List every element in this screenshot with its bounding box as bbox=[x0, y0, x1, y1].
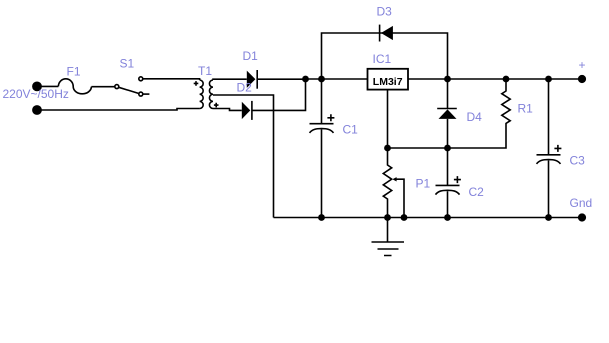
fuse F1 bbox=[58, 79, 91, 94]
junction node C3 bottom bbox=[545, 214, 552, 221]
svg-text:T1: T1 bbox=[198, 64, 212, 78]
bottom ground rail bbox=[274, 217, 583, 219]
diode D3 bbox=[381, 26, 393, 40]
potentiometer P1 wiper arrow bbox=[392, 177, 396, 181]
svg-text:IC1: IC1 bbox=[373, 52, 392, 66]
switch S1 upper throw contact bbox=[139, 77, 143, 81]
junction node adj D4 bbox=[444, 145, 451, 152]
svg-text:C3: C3 bbox=[570, 153, 586, 167]
diode D4 bbox=[447, 79, 449, 109]
junction node adj left bbox=[384, 145, 391, 152]
junction node IC1 out bbox=[444, 76, 451, 83]
svg-text:C2: C2 bbox=[469, 185, 485, 199]
input terminal bottom bbox=[32, 105, 42, 115]
capacitor C1 bbox=[321, 79, 323, 124]
op box IC1 LM317 regulator bbox=[368, 69, 409, 90]
transformer T1 primary winding bbox=[200, 80, 204, 109]
resistor R1 bbox=[388, 79, 511, 148]
wire fuse to switch bbox=[91, 86, 114, 88]
wire secondary center tap bbox=[213, 95, 274, 218]
diode D1 bbox=[247, 71, 256, 88]
capacitor C3 bbox=[548, 79, 550, 155]
wire D2 up to rail bbox=[252, 79, 306, 110]
output terminal + bbox=[578, 75, 586, 83]
input terminal top bbox=[32, 82, 42, 92]
svg-text:C1: C1 bbox=[343, 123, 359, 137]
junction node C1 bottom bbox=[318, 214, 325, 221]
svg-text:Gnd: Gnd bbox=[570, 196, 593, 210]
svg-text:F1: F1 bbox=[67, 65, 81, 79]
junction node C2 bottom bbox=[444, 214, 451, 221]
wire switch to transformer primary bbox=[143, 79, 200, 80]
wire D3 bypass loop bbox=[322, 33, 448, 79]
svg-text:P1: P1 bbox=[416, 176, 431, 190]
switch S1 lever bbox=[119, 87, 139, 93]
junction node at D2 join bbox=[302, 76, 309, 83]
transformer T1 secondary polarity + bbox=[214, 103, 219, 108]
wire IC1 output to rail bbox=[408, 78, 582, 80]
wire transformer primary bottom to input bottom bbox=[37, 109, 200, 111]
junction node R1 top bbox=[503, 76, 510, 83]
junction node wiper bottom bbox=[401, 214, 408, 221]
svg-text:D4: D4 bbox=[467, 110, 483, 124]
switch S1 lower stub bbox=[143, 93, 150, 95]
svg-text:D2: D2 bbox=[237, 81, 253, 95]
switch S1 pole contact bbox=[115, 85, 119, 89]
wire secondary top to D1 bbox=[213, 78, 247, 81]
svg-text:D3: D3 bbox=[377, 4, 393, 18]
potentiometer P1 body bbox=[383, 148, 391, 218]
wire D1 to node bbox=[257, 78, 305, 80]
wire input top to fuse bbox=[37, 85, 58, 87]
capacitor C2 bbox=[447, 148, 449, 185]
output terminal Gnd bbox=[578, 213, 586, 221]
wire IC1 adjust pin bbox=[387, 90, 389, 148]
wire rail node to IC1 input bbox=[306, 78, 368, 80]
transformer T1 primary polarity + bbox=[194, 81, 199, 86]
diode D2 bbox=[242, 102, 251, 119]
wire secondary bottom to D2 bbox=[213, 109, 242, 111]
junction node at C1 top bbox=[318, 76, 325, 83]
ground symbol bbox=[387, 218, 389, 242]
svg-text:D1: D1 bbox=[243, 49, 259, 63]
junction node P1 bottom bbox=[384, 214, 391, 221]
svg-text:S1: S1 bbox=[120, 57, 135, 71]
svg-text:R1: R1 bbox=[518, 102, 534, 116]
svg-text:220V~/50Hz: 220V~/50Hz bbox=[3, 87, 69, 101]
svg-text:+: + bbox=[579, 58, 586, 72]
transformer T1 secondary winding bbox=[209, 80, 213, 109]
switch S1 lower throw contact bbox=[139, 92, 143, 96]
junction node C3 top bbox=[545, 76, 552, 83]
svg-text:LM3i7: LM3i7 bbox=[373, 76, 403, 88]
